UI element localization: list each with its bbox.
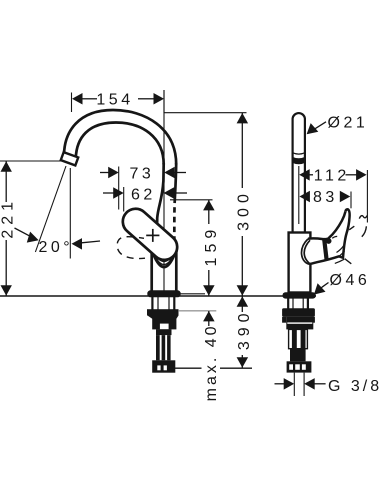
right view hose connector bbox=[287, 361, 312, 372]
svg-text:83: 83 bbox=[313, 189, 338, 206]
dome thin arc 2 bbox=[152, 250, 176, 262]
right view outlet thin arc bbox=[292, 153, 305, 155]
dim max40 bottom arrow bbox=[203, 311, 215, 321]
dim 73 right arrow bbox=[164, 167, 175, 178]
angle 20 vertical line bbox=[69, 168, 71, 259]
dim 159 top extension line bbox=[170, 199, 213, 201]
dim G38 left extension line bbox=[293, 373, 295, 396]
dim max40 text bbox=[203, 323, 220, 401]
dim G38 right extension line bbox=[303, 373, 305, 396]
spout top extension line bbox=[164, 112, 247, 114]
right view mounting nut bbox=[282, 308, 315, 317]
dim 73 extension line bbox=[118, 167, 120, 210]
dim 300 top arrow bbox=[237, 113, 249, 123]
dim G38 right arrow bbox=[304, 378, 315, 390]
centerline left view bbox=[163, 90, 165, 295]
dim 112 right extension line bbox=[366, 170, 368, 223]
angle 20 slanted line bbox=[35, 166, 66, 252]
svg-text:20°: 20° bbox=[39, 239, 74, 256]
dim 73 left arrow bbox=[108, 167, 119, 178]
dim 62 extension line bbox=[123, 187, 125, 212]
dim 159 top arrow bbox=[203, 200, 215, 210]
riser right edge dashed segment bbox=[173, 198, 176, 253]
handle pivot dot bbox=[326, 238, 332, 244]
right view spout pipe bbox=[293, 113, 305, 232]
dim 154 right extension line bbox=[163, 90, 165, 113]
svg-text:Ø46: Ø46 bbox=[330, 272, 371, 289]
svg-text:G 3/8: G 3/8 bbox=[328, 378, 381, 395]
right view column bbox=[289, 329, 308, 348]
riser left edge bbox=[157, 163, 164, 252]
spout inner edge (front view) bbox=[76, 123, 164, 165]
svg-text:221: 221 bbox=[0, 197, 17, 239]
svg-text:Ø21: Ø21 bbox=[328, 115, 369, 132]
svg-text:390: 390 bbox=[236, 308, 253, 350]
svg-text:73: 73 bbox=[130, 165, 155, 182]
dim 390 bottom reference line bbox=[172, 367, 202, 369]
dim 83 left arrow bbox=[299, 191, 310, 202]
dim O46 leader bbox=[315, 283, 329, 294]
angle 20 left arrow bbox=[15, 228, 31, 236]
counter bottom line bbox=[179, 310, 217, 312]
right view mounting block bbox=[286, 317, 313, 330]
dim 221 text bbox=[0, 197, 17, 239]
dim 154 right arrow bbox=[154, 93, 165, 105]
dim O21 leader bbox=[308, 122, 327, 134]
handle lever (front view) bbox=[118, 204, 183, 266]
spout outlet aerator tip bbox=[61, 152, 78, 165]
dim 300 bottom arrow bbox=[237, 285, 249, 295]
svg-text:159: 159 bbox=[203, 225, 220, 267]
handle foot serif bbox=[345, 259, 352, 264]
spacer left view bbox=[156, 329, 172, 335]
dim 112 left arrow bbox=[299, 169, 310, 181]
right view lower block bbox=[290, 349, 306, 362]
handle collar inner line bbox=[304, 240, 310, 263]
handle top edge bbox=[308, 211, 346, 239]
dim 221 line bbox=[5, 161, 7, 202]
threaded shank left view bbox=[156, 335, 171, 360]
dim 159 line bbox=[208, 200, 210, 224]
dim 112 right arrow bbox=[346, 174, 358, 176]
dome thin arc 1 bbox=[152, 250, 176, 265]
hose connector left view bbox=[152, 360, 175, 372]
svg-text:300: 300 bbox=[236, 189, 253, 231]
dim 390 bottom arrow bbox=[237, 357, 249, 367]
dim 300 line bbox=[241, 113, 243, 188]
handle raised position arc bbox=[362, 226, 367, 236]
right view shank bbox=[287, 299, 289, 310]
dim 73 lead line bbox=[100, 172, 109, 174]
dim G38 left arrow bbox=[275, 383, 285, 385]
dim 154 left extension line bbox=[71, 93, 73, 113]
handle plus mark bbox=[146, 234, 159, 236]
handle shading stroke 1 bbox=[338, 251, 344, 257]
mounting nut left view bbox=[147, 309, 179, 315]
svg-text:62: 62 bbox=[131, 186, 156, 203]
mounting surface line bbox=[0, 295, 316, 297]
dim 154 left arrow bbox=[72, 93, 83, 105]
dim 83 right arrow bbox=[340, 191, 351, 202]
dim 159 text bbox=[203, 225, 220, 267]
svg-text:max. 40: max. 40 bbox=[203, 323, 220, 401]
dim 159 bottom arrow bbox=[203, 285, 215, 295]
dim 221 bottom arrow bbox=[1, 285, 12, 295]
cartridge dome thick arc bbox=[152, 250, 177, 268]
dim 300 text bbox=[236, 189, 253, 231]
handle dash above dot bbox=[332, 236, 337, 238]
dim 390 text bbox=[236, 308, 253, 350]
handle raised position tilde bbox=[359, 215, 367, 218]
riser right edge bbox=[175, 163, 176, 198]
right view handle collar fill bbox=[302, 239, 327, 264]
dim 221 top arrow bbox=[1, 161, 12, 171]
body cylinder left view bbox=[150, 249, 153, 291]
dim 83 right extension line bbox=[350, 192, 352, 209]
handle collar outer line bbox=[301, 239, 309, 264]
right view body bbox=[289, 233, 311, 293]
handle tip and right edge and underside bbox=[310, 209, 350, 264]
mounting block left view bbox=[152, 315, 176, 329]
handle neck bar bbox=[324, 239, 326, 259]
svg-text:112: 112 bbox=[314, 167, 350, 184]
right view nut side tabs bbox=[282, 317, 286, 323]
right view handle horn fill bbox=[310, 209, 350, 264]
handle raised position dash bbox=[349, 226, 354, 230]
dim 390 top arrow bbox=[237, 296, 249, 306]
handle shading stroke 2 bbox=[337, 246, 344, 253]
dim 62 lead line bbox=[103, 192, 114, 194]
handle lowered position dashed bbox=[117, 237, 145, 259]
right view outlet black band bbox=[292, 157, 306, 165]
dim 390 line bbox=[241, 296, 243, 312]
handle underside thin line bbox=[335, 259, 344, 263]
dim 62 right arrow bbox=[164, 187, 175, 199]
shank left view bbox=[151, 297, 153, 310]
dim 159 bottom extension line bbox=[177, 293, 205, 295]
dim 62 left arrow bbox=[113, 187, 124, 199]
base escutcheon left view bbox=[147, 290, 180, 297]
spout outer edge (front view) bbox=[64, 110, 176, 165]
right view centerline bbox=[298, 166, 300, 224]
svg-text:154: 154 bbox=[96, 92, 133, 109]
angle 20 right arrow bbox=[72, 238, 83, 250]
right view base escutcheon bbox=[283, 292, 316, 298]
dim 221 top extension line bbox=[0, 160, 63, 162]
